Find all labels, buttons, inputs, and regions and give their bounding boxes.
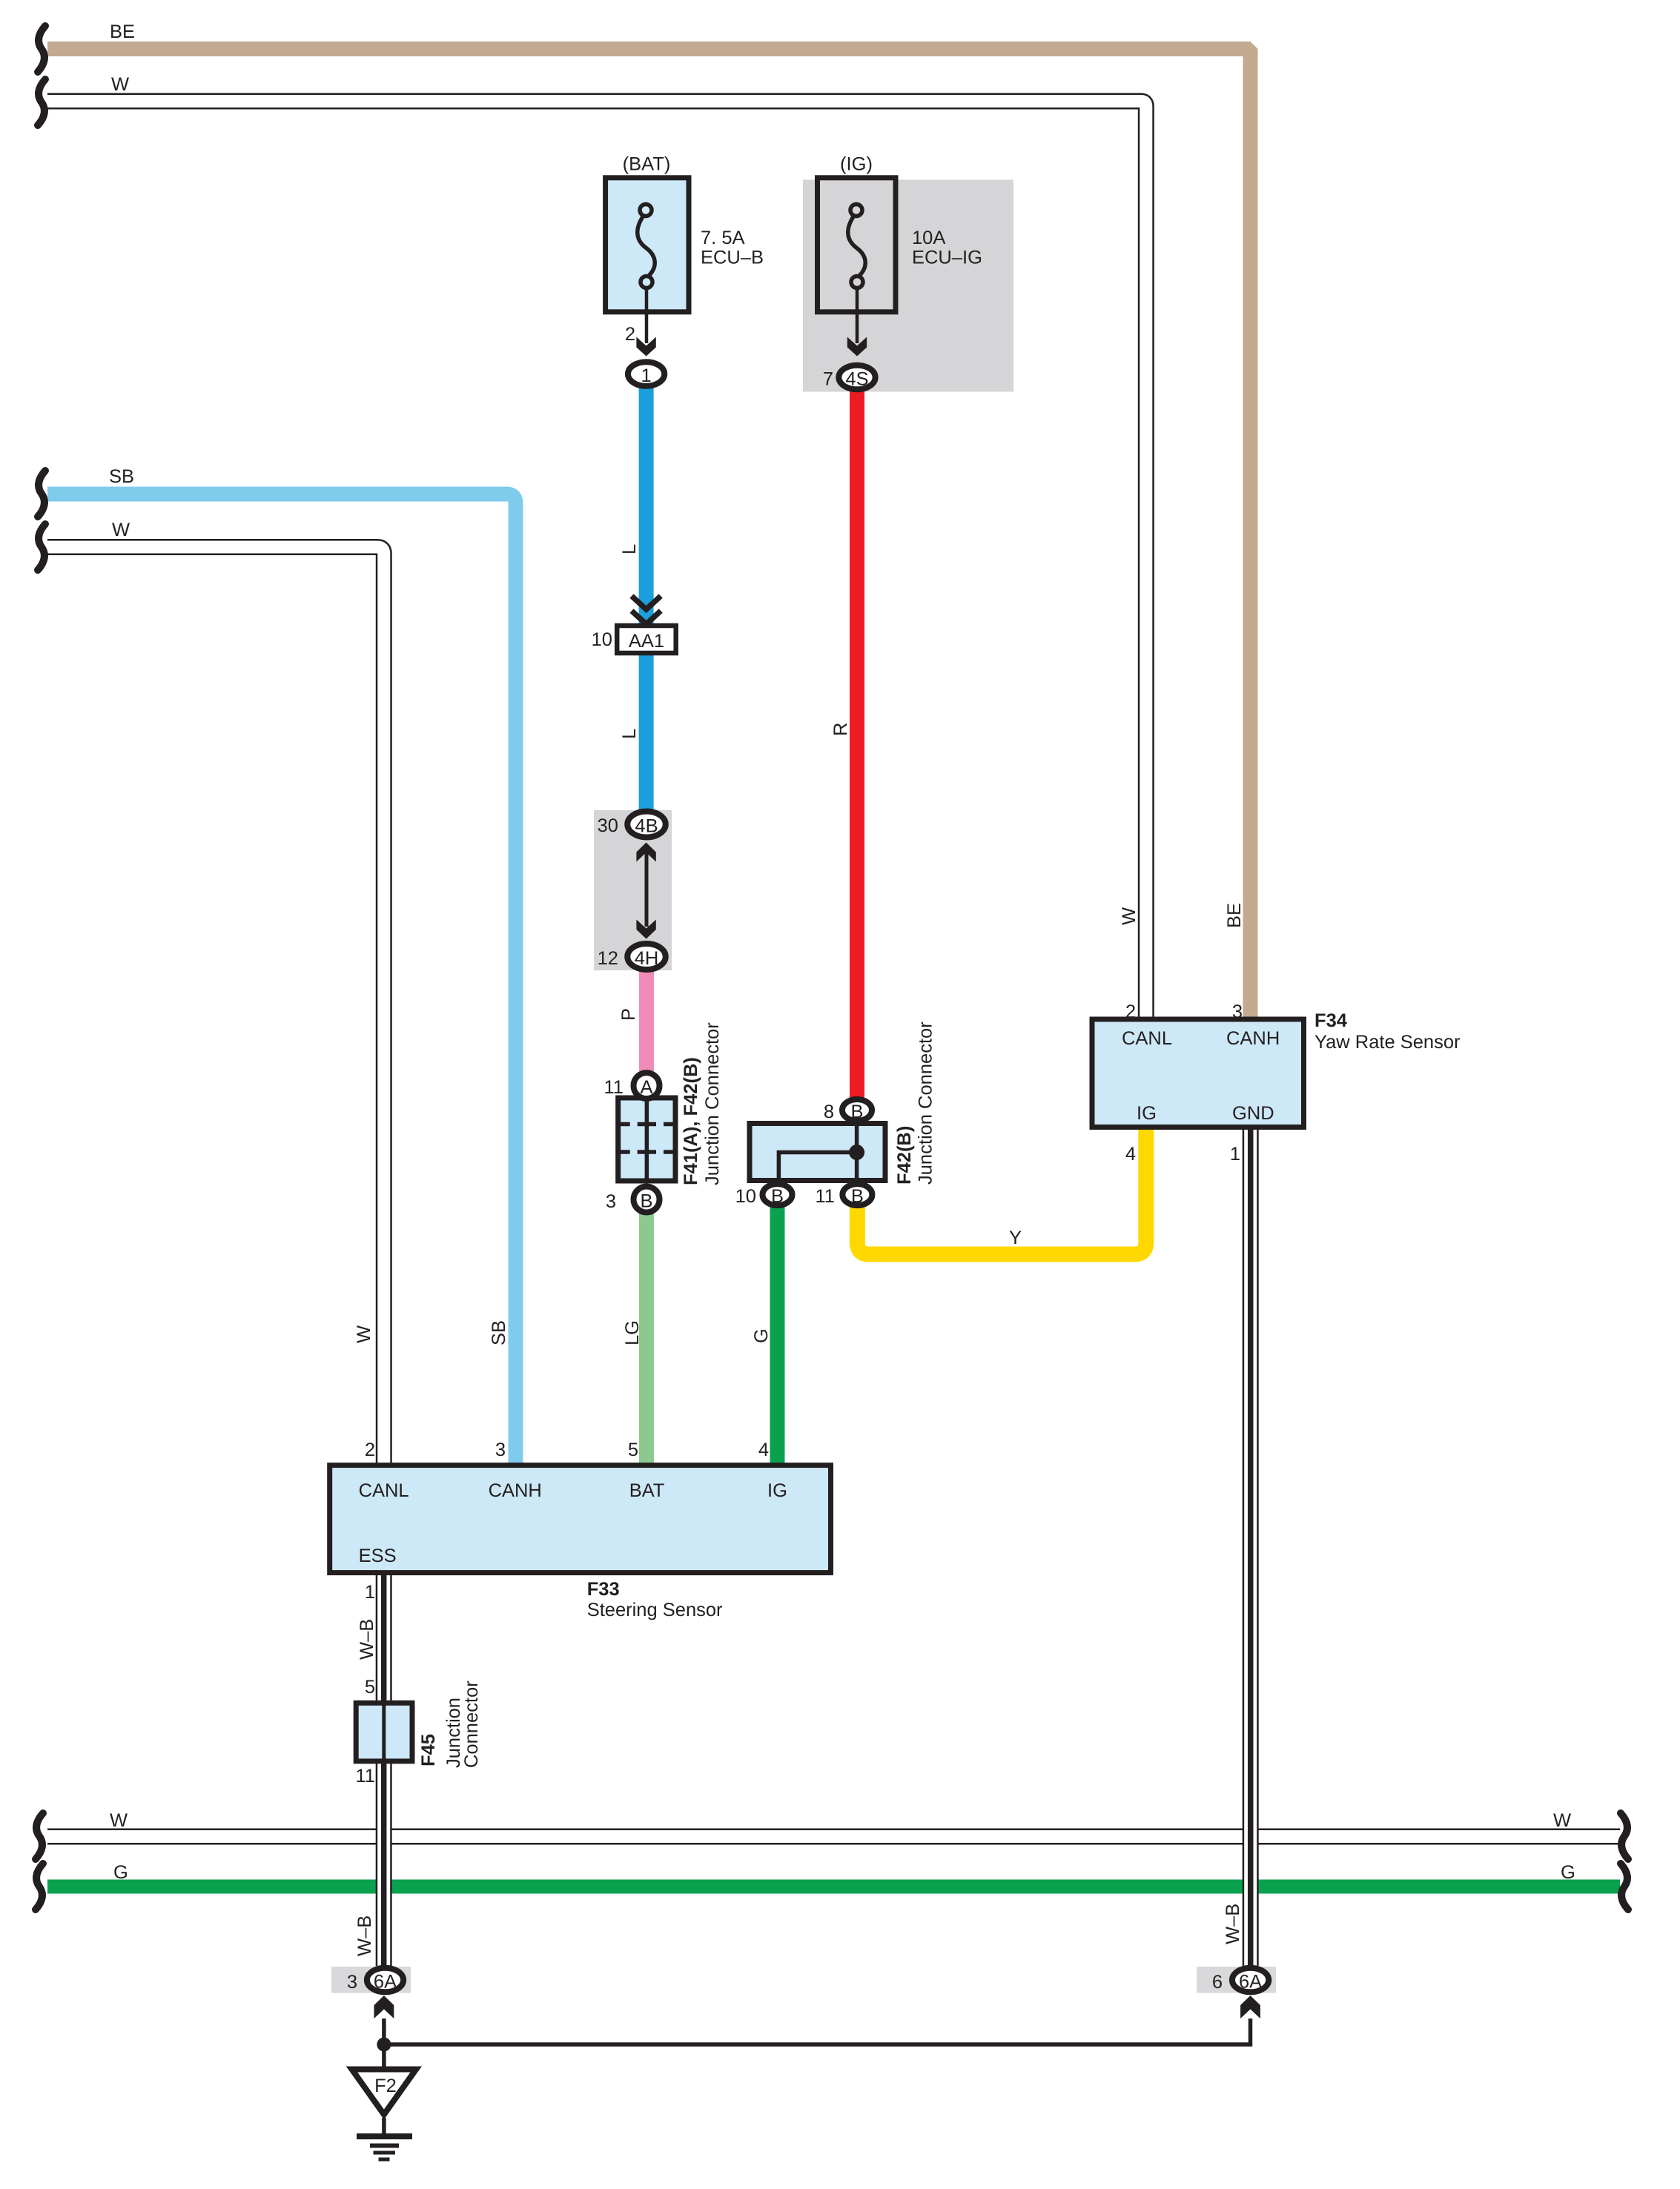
- svg-text:3: 3: [1232, 1001, 1243, 1022]
- svg-text:2: 2: [1125, 1001, 1136, 1022]
- connector circle B pin10: [763, 1184, 793, 1207]
- svg-text:(BAT): (BAT): [623, 154, 671, 175]
- wire W left (white with black outline): [47, 547, 384, 1466]
- svg-text:4: 4: [758, 1440, 769, 1460]
- svg-text:Junction Connector: Junction Connector: [916, 1021, 936, 1185]
- svg-text:ESS: ESS: [359, 1546, 397, 1566]
- svg-text:6: 6: [1212, 1972, 1223, 1993]
- svg-text:CANH: CANH: [489, 1480, 542, 1501]
- brace bottom right W: [1621, 1813, 1628, 1859]
- svg-text:W: W: [112, 520, 130, 540]
- ground bus wire right 6A down and left to junction: [384, 2019, 1251, 2044]
- svg-text:4: 4: [1125, 1144, 1136, 1165]
- lead from fuse ECU-B: [645, 288, 649, 344]
- yaw rate sensor F34 box: [1092, 1019, 1304, 1127]
- svg-text:L: L: [619, 729, 640, 739]
- F41 inner dashed lines: [618, 1122, 675, 1127]
- junction connector F41(A),F42(B) box: [618, 1098, 675, 1181]
- svg-text:W–B: W–B: [354, 1915, 375, 1956]
- svg-text:F2: F2: [374, 2076, 397, 2096]
- svg-text:W: W: [1553, 1810, 1571, 1831]
- svg-text:GND: GND: [1232, 1103, 1274, 1124]
- connector oval 4S: [839, 365, 875, 390]
- ground symbol F2: [352, 2070, 417, 2160]
- svg-text:F34: F34: [1314, 1010, 1348, 1031]
- svg-text:10A: 10A: [912, 228, 945, 248]
- svg-text:G: G: [751, 1328, 772, 1343]
- wire Y (yellow) F34 IG to F42(B) pin 11: [857, 1125, 1145, 1254]
- svg-text:11: 11: [604, 1077, 624, 1098]
- link wire 4B-4H: [645, 852, 649, 927]
- F41 inner vertical line: [645, 1098, 649, 1181]
- wire G bottom horizontal (green): [47, 1880, 1620, 1894]
- svg-text:7: 7: [823, 369, 833, 390]
- svg-text:BE: BE: [1224, 903, 1245, 928]
- svg-text:5: 5: [628, 1440, 638, 1460]
- svg-text:R: R: [830, 723, 851, 736]
- svg-text:1: 1: [365, 1582, 375, 1603]
- grey shade behind ECU-IG fuse: [803, 180, 1013, 392]
- svg-text:ECU–IG: ECU–IG: [912, 248, 982, 268]
- wire G (green) B10 to F33 IG: [770, 1195, 785, 1466]
- brace left W top: [38, 79, 45, 125]
- fuse ECU-IG box: [818, 178, 896, 312]
- arrow into connector 4S: [847, 337, 867, 357]
- F42 inner vertical line: [855, 1124, 859, 1181]
- svg-text:A: A: [640, 1077, 652, 1098]
- connector circle B pin8: [842, 1099, 872, 1122]
- F42 inner dot: [849, 1145, 864, 1160]
- wire W-B left (white/black stripe) F33 ESS to 6A: [376, 1572, 392, 1966]
- grey shade behind 4B/4H connectors: [594, 810, 672, 970]
- F45 inner vertical line: [382, 1703, 386, 1761]
- connector circle A: [634, 1073, 660, 1099]
- arrow into connector 1: [636, 337, 655, 357]
- arrow down into 4H: [636, 920, 655, 939]
- svg-text:1: 1: [1230, 1144, 1240, 1165]
- svg-text:3: 3: [606, 1191, 616, 1212]
- svg-text:W: W: [110, 1810, 128, 1831]
- svg-text:3: 3: [495, 1440, 506, 1460]
- svg-text:11: 11: [356, 1766, 375, 1786]
- svg-text:Connector: Connector: [461, 1680, 482, 1768]
- svg-text:B: B: [851, 1186, 864, 1207]
- wire W-B right (white/black stripe) F34 GND to 6A: [1243, 1125, 1259, 1966]
- svg-text:F45: F45: [418, 1734, 439, 1766]
- wire P (pink) 4H to A: [639, 957, 654, 1086]
- svg-text:2: 2: [365, 1440, 375, 1460]
- svg-text:F41(A), F42(B): F41(A), F42(B): [681, 1057, 701, 1185]
- svg-text:CANL: CANL: [1122, 1028, 1172, 1049]
- svg-text:ECU–B: ECU–B: [701, 248, 764, 268]
- arrow up into 4B: [636, 843, 655, 862]
- junction dot: [377, 2038, 391, 2052]
- svg-text:10: 10: [592, 629, 612, 650]
- wire W bottom horizontal (white with black outline): [47, 1829, 1620, 1845]
- grey highlight behind 3/6A: [331, 1967, 411, 1993]
- svg-text:3: 3: [347, 1972, 357, 1993]
- brace bottom left G: [36, 1864, 43, 1910]
- svg-text:Yaw Rate Sensor: Yaw Rate Sensor: [1314, 1032, 1461, 1053]
- connector oval 1: [628, 362, 664, 386]
- svg-text:BE: BE: [110, 21, 135, 42]
- svg-text:1: 1: [641, 365, 652, 386]
- svg-text:IG: IG: [767, 1480, 787, 1501]
- double chevron arrow into AA1: [632, 596, 661, 624]
- svg-text:CANH: CANH: [1226, 1028, 1280, 1049]
- svg-text:B: B: [771, 1186, 784, 1207]
- fuse ECU-B element: [638, 205, 655, 288]
- connector AA1 box: [617, 626, 676, 653]
- svg-text:4B: 4B: [635, 816, 658, 837]
- fuse ECU-IG element: [848, 205, 865, 288]
- junction connector F42(B) box: [750, 1124, 885, 1181]
- svg-text:11: 11: [816, 1186, 835, 1207]
- svg-text:G: G: [1561, 1862, 1575, 1883]
- svg-text:6A: 6A: [1239, 1972, 1262, 1993]
- wire LG (light green) B to F33 BAT: [639, 1199, 654, 1466]
- svg-text:W: W: [1119, 907, 1140, 925]
- brace left BE: [38, 26, 45, 72]
- svg-text:4H: 4H: [635, 948, 659, 969]
- svg-text:SB: SB: [489, 1320, 509, 1345]
- svg-text:W–B: W–B: [357, 1619, 377, 1660]
- connector circle B pin11: [842, 1184, 872, 1207]
- wire BE horizontal/vertical (beige): [47, 49, 1251, 1021]
- svg-text:G: G: [113, 1862, 128, 1883]
- brace left SB: [38, 471, 45, 517]
- fuse ECU-B box: [606, 178, 689, 312]
- wire W top (white with black outline): [47, 102, 1146, 1022]
- svg-text:F42(B): F42(B): [894, 1126, 915, 1185]
- svg-text:LG: LG: [622, 1320, 643, 1345]
- wire SB horizontal/vertical (sky blue): [47, 494, 516, 1467]
- grey highlight behind 6/6A: [1197, 1967, 1276, 1993]
- brace left W2: [38, 524, 45, 570]
- ground bus wire left 6A down to F2: [382, 2019, 386, 2067]
- wire L (blue) fuse to 4B: [639, 374, 654, 825]
- svg-text:2: 2: [625, 324, 635, 345]
- connector oval 4H: [627, 944, 666, 970]
- F42 inner branch line: [778, 1153, 856, 1181]
- connector oval 4B: [627, 812, 666, 838]
- svg-text:AA1: AA1: [629, 631, 664, 652]
- svg-text:W–B: W–B: [1223, 1904, 1243, 1944]
- svg-text:IG: IG: [1137, 1103, 1157, 1124]
- svg-text:30: 30: [598, 815, 618, 836]
- svg-text:W: W: [111, 74, 129, 95]
- svg-text:W: W: [354, 1325, 374, 1343]
- svg-text:CANL: CANL: [359, 1480, 409, 1501]
- svg-text:(IG): (IG): [840, 154, 873, 175]
- svg-text:12: 12: [598, 948, 618, 969]
- arrow up into 6A left: [374, 1996, 394, 2019]
- svg-text:BAT: BAT: [629, 1480, 665, 1501]
- svg-text:8: 8: [824, 1102, 834, 1122]
- svg-text:F33: F33: [587, 1579, 620, 1600]
- svg-text:6A: 6A: [374, 1972, 397, 1993]
- lead from fuse ECU-IG: [856, 288, 859, 344]
- svg-text:10: 10: [735, 1186, 756, 1207]
- svg-text:Steering Sensor: Steering Sensor: [587, 1600, 723, 1620]
- connector oval 6A left: [367, 1968, 403, 1993]
- svg-text:Junction Connector: Junction Connector: [702, 1022, 723, 1185]
- svg-text:B: B: [640, 1191, 652, 1212]
- brace bottom right G: [1621, 1864, 1628, 1910]
- brace bottom left W: [36, 1813, 43, 1859]
- svg-text:B: B: [850, 1102, 863, 1122]
- wire R (red) fuse to F42(B) pin 8: [850, 377, 864, 1110]
- connector circle B pin3: [634, 1187, 660, 1213]
- svg-text:P: P: [618, 1008, 639, 1021]
- steering sensor F33 box: [330, 1466, 831, 1573]
- svg-text:7. 5A: 7. 5A: [701, 228, 745, 248]
- arrow up into 6A right: [1240, 1996, 1260, 2019]
- svg-text:5: 5: [365, 1677, 375, 1698]
- svg-text:SB: SB: [109, 466, 134, 487]
- svg-text:4S: 4S: [845, 369, 868, 390]
- svg-text:Y: Y: [1009, 1228, 1022, 1248]
- connector oval 6A right: [1232, 1968, 1269, 1993]
- svg-text:L: L: [619, 544, 640, 554]
- junction connector F45 box: [356, 1703, 412, 1761]
